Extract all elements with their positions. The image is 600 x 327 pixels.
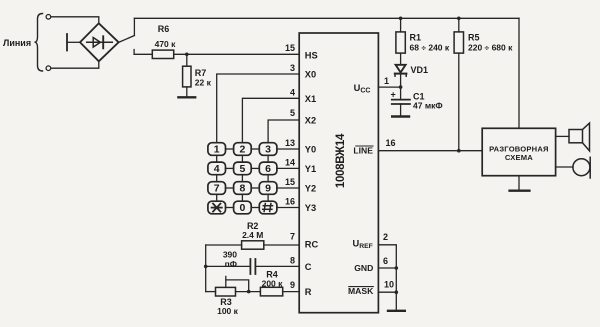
- svg-text:СХЕМА: СХЕМА: [505, 153, 533, 162]
- svg-text:200 к: 200 к: [262, 278, 284, 288]
- svg-text:R: R: [305, 287, 312, 297]
- svg-text:15: 15: [285, 177, 295, 187]
- ground under C1: [392, 115, 409, 117]
- svg-text:9: 9: [290, 280, 295, 290]
- svg-text:R1: R1: [410, 33, 422, 43]
- wire C1 to ground: [400, 104, 402, 116]
- wire X2: [268, 120, 299, 143]
- svg-text:68 ÷ 240 к: 68 ÷ 240 к: [410, 43, 450, 53]
- resistor R4: [260, 287, 282, 296]
- terminal bottom: [46, 66, 51, 71]
- svg-text:1: 1: [384, 76, 389, 86]
- asterisk glyph on * button: [212, 204, 222, 212]
- svg-text:2: 2: [383, 232, 388, 242]
- wire R1 to VD1: [400, 53, 402, 64]
- svg-text:22 к: 22 к: [195, 78, 212, 88]
- svg-text:2: 2: [239, 144, 245, 156]
- wire Ucc pin 1: [378, 86, 400, 88]
- switch lower contact: [133, 50, 135, 55]
- bridge left stub with bar: [67, 41, 80, 43]
- button 1: [208, 143, 226, 156]
- svg-text:4: 4: [290, 87, 295, 97]
- ground right bus: [388, 310, 405, 312]
- svg-text:Y0: Y0: [305, 145, 316, 155]
- wire MASK pin 10: [378, 291, 396, 293]
- button 0: [234, 201, 252, 214]
- svg-text:Y1: Y1: [305, 164, 316, 174]
- svg-text:8: 8: [239, 183, 245, 195]
- svg-text:470 к: 470 к: [155, 39, 177, 49]
- trimmer R3: [216, 287, 236, 296]
- button 9: [259, 182, 277, 195]
- svg-text:100 к: 100 к: [217, 306, 239, 316]
- wire VD1 to C1: [400, 73, 402, 99]
- svg-text:7: 7: [214, 183, 220, 195]
- svg-text:2.4 М: 2.4 М: [242, 230, 263, 240]
- svg-text:+: +: [391, 90, 396, 100]
- capacitor 390 пФ: [249, 259, 251, 274]
- diode bridge VD (diamond): [80, 23, 119, 61]
- resistor R2: [242, 241, 264, 249]
- ground under talk box: [518, 176, 520, 190]
- brace for Линия: [35, 14, 43, 72]
- wire top terminal to bridge: [51, 17, 99, 23]
- keypad column link wires: [217, 155, 268, 201]
- wire Y1 row to pin 14: [277, 167, 299, 169]
- keypad row link wires: [226, 149, 260, 208]
- wire Y3 row to pin 16: [277, 207, 299, 209]
- junction dot R1 top: [399, 17, 403, 21]
- wire switch to R6: [134, 53, 152, 55]
- IC right pin names: [348, 83, 374, 296]
- resistor R6: [152, 50, 173, 58]
- svg-text:3: 3: [290, 63, 295, 73]
- top rail wire: [134, 17, 519, 19]
- wire to capacitor: [206, 265, 251, 267]
- svg-text:5: 5: [290, 108, 295, 118]
- switch upper contact: [133, 18, 135, 35]
- svg-text:7: 7: [290, 232, 295, 242]
- wire R7 bottom: [186, 87, 188, 96]
- wire to R2: [206, 244, 242, 246]
- button #: [259, 201, 277, 214]
- svg-text:Линия: Линия: [3, 38, 31, 48]
- capacitor C1 polarized: [392, 99, 410, 101]
- overline LINE: [356, 145, 373, 147]
- svg-text:5: 5: [239, 163, 245, 175]
- ground under R7: [178, 96, 195, 98]
- wire R2 to pin 7: [264, 244, 299, 246]
- wire GND pin 6: [378, 267, 396, 269]
- svg-text:0: 0: [239, 202, 245, 214]
- wire R5 down to LINE: [458, 53, 460, 151]
- svg-text:GND: GND: [354, 263, 373, 273]
- wire LINE pin 16: [378, 150, 482, 152]
- wire R4 to pin 9: [283, 291, 300, 293]
- resistor R5: [454, 32, 463, 53]
- wire bottom terminal to bridge: [51, 62, 99, 68]
- hash glyph on # button: [263, 204, 273, 212]
- wire rail to talk box: [518, 18, 520, 128]
- button 5: [234, 162, 252, 175]
- svg-text:X0: X0: [305, 70, 316, 80]
- svg-text:8: 8: [290, 256, 295, 266]
- svg-text:C: C: [305, 262, 312, 272]
- svg-text:пФ: пФ: [225, 259, 237, 269]
- svg-text:RC: RC: [305, 239, 319, 249]
- wire Uref pin 2: [378, 245, 396, 310]
- svg-text:X2: X2: [305, 116, 316, 126]
- junction dot MASK: [395, 290, 399, 294]
- IC left pin names: [305, 51, 319, 298]
- wire to speaker: [556, 135, 569, 137]
- button 4: [208, 162, 226, 175]
- svg-text:3: 3: [265, 144, 271, 156]
- svg-text:16: 16: [285, 197, 295, 207]
- button 6: [259, 162, 277, 175]
- junction dot R5 top: [457, 17, 461, 21]
- svg-text:220 ÷ 680 к: 220 ÷ 680 к: [468, 43, 513, 53]
- wire to microphone: [556, 166, 573, 168]
- svg-text:47 мкФ: 47 мкФ: [413, 101, 443, 111]
- button 3: [259, 143, 277, 156]
- svg-text:MASK: MASK: [348, 286, 374, 296]
- zener diode VD1: [396, 65, 406, 73]
- hook switch lever: [119, 36, 135, 43]
- svg-text:R7: R7: [195, 68, 207, 78]
- wire Y0 row to pin 13: [277, 148, 299, 150]
- wire rail to R5: [458, 18, 460, 32]
- junction dot R5/LINE: [457, 149, 461, 153]
- svg-text:X1: X1: [305, 94, 316, 104]
- overline MASK: [349, 286, 374, 288]
- svg-text:1: 1: [214, 144, 220, 156]
- svg-text:16: 16: [386, 138, 396, 148]
- svg-text:13: 13: [285, 138, 295, 148]
- pin number labels right side: [383, 76, 396, 290]
- junction dot Ucc: [399, 85, 403, 89]
- wire rail to R1: [400, 18, 402, 32]
- diode inside bridge: [87, 36, 113, 48]
- svg-text:R6: R6: [158, 24, 170, 34]
- wire R7 top: [186, 54, 188, 66]
- svg-text:10: 10: [384, 280, 394, 290]
- svg-text:LINE: LINE: [353, 145, 373, 155]
- svg-text:HS: HS: [305, 51, 318, 61]
- svg-text:9: 9: [265, 183, 271, 195]
- junction dot R7 tap: [185, 53, 189, 57]
- wire R6 to pin 15: [174, 53, 300, 55]
- junction dot wiper: [247, 290, 251, 294]
- pin number labels left side: [285, 43, 295, 290]
- talk box Разговорная схема: [482, 128, 555, 175]
- wire cap to pin 8: [255, 265, 299, 267]
- terminal top: [46, 14, 51, 19]
- wire X0: [217, 74, 300, 143]
- svg-text:6: 6: [383, 256, 388, 266]
- wire Y2 row to pin 15: [277, 187, 299, 189]
- speaker: [569, 130, 583, 143]
- svg-text:Y2: Y2: [305, 184, 316, 194]
- svg-text:15: 15: [285, 43, 295, 53]
- svg-text:1008ВЖ14: 1008ВЖ14: [335, 133, 347, 188]
- resistor R7: [183, 66, 191, 87]
- wire R3 to R4: [236, 291, 261, 293]
- button 8: [234, 182, 252, 195]
- svg-text:6: 6: [265, 163, 271, 175]
- svg-text:Y3: Y3: [305, 203, 316, 213]
- button 2: [234, 143, 252, 156]
- svg-text:14: 14: [285, 157, 295, 167]
- button *: [208, 201, 226, 214]
- resistor R1: [396, 32, 405, 53]
- svg-text:4: 4: [214, 163, 220, 175]
- wire X1: [242, 98, 299, 142]
- R3 wiper arm: [225, 276, 227, 287]
- svg-text:R5: R5: [468, 33, 480, 43]
- oscillator network: left bus: [205, 245, 207, 292]
- microphone: [573, 159, 590, 176]
- junction dot GND: [395, 266, 399, 270]
- IC U1 1008ВЖ14: [299, 33, 378, 313]
- svg-text:VD1: VD1: [411, 65, 429, 75]
- button 7: [208, 182, 226, 195]
- wire bus to R3: [206, 291, 216, 293]
- junction dot cap bus: [204, 265, 208, 269]
- keypad buttons: [208, 143, 277, 214]
